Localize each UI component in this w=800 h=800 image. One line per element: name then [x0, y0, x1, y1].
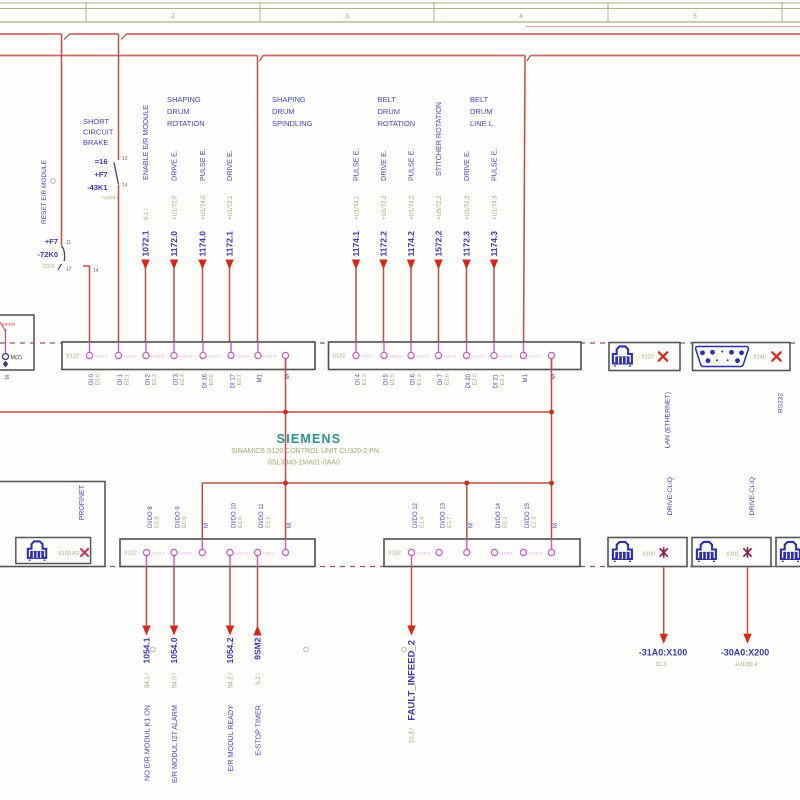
svg-text:1172.2: 1172.2	[378, 231, 388, 257]
wire: M bus L2 (second horizontal)	[0, 56, 800, 62]
contact Q1 -72K0 (breaker contact 11/12)	[58, 240, 72, 273]
svg-text:+U5/72.2: +U5/72.2	[437, 195, 443, 220]
svg-text:E0.0: E0.0	[96, 374, 102, 385]
svg-text:DI/DO 11: DI/DO 11	[259, 503, 265, 528]
svg-text:E2.3: E2.3	[532, 517, 538, 528]
wire: branch from L1 at x=61.5	[61, 34, 63, 246]
svg-text:+1/23.2: +1/23.2	[389, 353, 403, 358]
svg-text:DI 1: DI 1	[118, 373, 124, 385]
wire: outgoing signal 1054.1	[142, 567, 152, 782]
svg-text:+U1/72.0: +U1/72.0	[172, 195, 178, 220]
header row band	[0, 2, 800, 22]
svg-text:M: M	[5, 375, 11, 380]
svg-text:SPINDLING: SPINDLING	[272, 119, 313, 128]
header column numbers	[171, 13, 697, 20]
svg-text:BELT: BELT	[378, 95, 397, 104]
terminal strip X122 (top)	[62, 342, 315, 370]
svg-text:X132: X132	[388, 551, 401, 557]
svg-text:+1/23.4: +1/23.4	[443, 353, 457, 358]
svg-text:BELT: BELT	[470, 95, 489, 104]
svg-text:1174.0: 1174.0	[197, 231, 207, 257]
port X102 (DRIVE-CLiQ, partial)	[776, 538, 800, 567]
svg-text:+1/23.7: +1/23.7	[528, 353, 542, 358]
svg-text:+1/22.4: +1/22.4	[123, 353, 137, 358]
svg-text:3: 3	[345, 13, 349, 20]
svg-text:DI/DO 12: DI/DO 12	[413, 502, 419, 528]
svg-text:1172.0: 1172.0	[169, 231, 179, 257]
svg-text:+U1/74.2: +U1/74.2	[409, 195, 415, 220]
svg-text:-43K1: -43K1	[87, 183, 107, 192]
svg-text:+U1/72.1: +U1/72.1	[228, 195, 234, 220]
svg-text:+1/10.3: +1/10.3	[416, 550, 430, 555]
svg-text:DI 0: DI 0	[89, 373, 95, 385]
svg-text:SINAMICS S120 CONTROL UNIT CU3: SINAMICS S120 CONTROL UNIT CU320-2 PN	[231, 448, 379, 455]
svg-text:14: 14	[122, 183, 128, 189]
wire: incoming signal 1172.3	[461, 150, 471, 352]
svg-text:DI/DO 13: DI/DO 13	[441, 502, 447, 528]
wire: incoming signal 1174.0	[197, 149, 207, 353]
svg-text:-72K0: -72K0	[38, 250, 58, 259]
svg-text:54.1 /: 54.1 /	[145, 673, 151, 688]
junction dots M bus	[283, 410, 554, 486]
svg-text:E1.6: E1.6	[445, 374, 451, 385]
svg-text:LAN (ETHERNET): LAN (ETHERNET)	[665, 392, 672, 448]
wire: X132:8 M down to bottom strip	[551, 359, 553, 550]
svg-text:SHAPING: SHAPING	[272, 95, 306, 104]
svg-text:+U1/74.1: +U1/74.1	[354, 195, 360, 220]
terminal stubs bottom strips	[147, 539, 552, 567]
svg-text:E0.1: E0.1	[125, 374, 131, 385]
wire: M bus horizontal y=412	[0, 411, 552, 413]
svg-text:M: M	[204, 523, 210, 528]
svg-text:X101: X101	[726, 552, 739, 558]
svg-text:+1/22.6: +1/22.6	[179, 353, 193, 358]
svg-text:11: 11	[66, 240, 71, 246]
dashed outline CU320 top edge (left part)	[0, 342, 800, 344]
svg-text:DRIVE-CLiQ: DRIVE-CLiQ	[749, 477, 756, 516]
svg-text:DRIVE E.: DRIVE E.	[462, 150, 471, 181]
svg-text:X132: X132	[333, 354, 346, 360]
svg-text:DI 5: DI 5	[384, 373, 390, 385]
svg-text:PULSE E.: PULSE E.	[407, 149, 416, 181]
svg-text:E2.0: E2.0	[473, 374, 479, 385]
svg-text:DI 20: DI 20	[466, 373, 472, 388]
svg-text:ENABLE E/R MODULE: ENABLE E/R MODULE	[141, 105, 150, 180]
wire: contact output to X122:1	[83, 266, 99, 352]
svg-text:PROFINET: PROFINET	[79, 484, 86, 520]
wire: 24V supply bus L1 (top horizontal)	[0, 34, 800, 40]
terminal box M(Z)	[0, 315, 34, 370]
label: device tag +F7 -72K0	[38, 237, 58, 270]
terminal stubs strip X122/X132 top	[90, 342, 552, 370]
svg-text:+1/10.4: +1/10.4	[499, 550, 513, 555]
svg-text:MPER: MPER	[2, 322, 16, 327]
svg-text:DI 3: DI 3	[174, 373, 180, 385]
wire: branch from L1 at x=118.5	[118, 34, 120, 160]
port X127 (LAN)	[609, 343, 680, 371]
interrupt circle o4	[402, 647, 407, 652]
svg-text:M1: M1	[523, 373, 529, 382]
svg-text:M(Z): M(Z)	[11, 355, 23, 361]
svg-text:DI 6: DI 6	[411, 373, 417, 385]
svg-text:DRUM: DRUM	[167, 107, 190, 116]
svg-text:2: 2	[171, 13, 175, 20]
svg-text:E0.3: E0.3	[155, 517, 161, 528]
svg-text:+U1/74.3: +U1/74.3	[492, 195, 498, 220]
svg-text:6SL3040-1MA01-0AA0: 6SL3040-1MA01-0AA0	[268, 460, 340, 467]
svg-text:+1/22.9: +1/22.9	[263, 353, 277, 358]
svg-text:E1.4: E1.4	[420, 517, 426, 528]
svg-text:9.1 /: 9.1 /	[144, 208, 150, 220]
svg-text:RESET E/R MODULE: RESET E/R MODULE	[41, 160, 48, 224]
svg-text:E1.5: E1.5	[390, 374, 396, 385]
svg-text:31.3: 31.3	[656, 662, 667, 668]
svg-text:DI 17: DI 17	[231, 373, 237, 388]
svg-text:BRAKE: BRAKE	[83, 138, 108, 147]
wire: contact to X122:2	[118, 185, 120, 352]
interrupt circle o2	[151, 647, 156, 652]
svg-text:RS232: RS232	[778, 393, 785, 413]
svg-text:DRIVE E.: DRIVE E.	[225, 150, 234, 181]
svg-text:1174.2: 1174.2	[406, 231, 416, 257]
svg-text:E2.2: E2.2	[503, 517, 509, 528]
svg-text:14: 14	[93, 268, 99, 274]
svg-text:DRIVE E.: DRIVE E.	[170, 150, 179, 181]
svg-text:DRUM: DRUM	[378, 107, 401, 116]
svg-text:+1/9.2: +1/9.2	[262, 550, 274, 555]
svg-text:LINE L.: LINE L.	[470, 119, 495, 128]
wire: light pink bus (partial, right)	[526, 26, 800, 28]
svg-text:E0.6: E0.6	[209, 374, 215, 385]
svg-text:SHORT: SHORT	[83, 117, 110, 126]
svg-text:DI 7: DI 7	[438, 373, 444, 385]
wire: outgoing signal 1054.0	[169, 567, 179, 784]
svg-text:13: 13	[122, 156, 128, 162]
wire: M drop to X132 bottom M1	[466, 483, 468, 550]
svg-text:SIEMENS: SIEMENS	[277, 432, 342, 446]
svg-text:M: M	[287, 523, 293, 528]
wire: incoming signal 1174.2	[406, 149, 416, 353]
svg-text:+U1/72.3: +U1/72.3	[465, 195, 471, 220]
wire: X100 to -31A0:X100	[639, 567, 688, 669]
wire: incoming signal 1572.2	[433, 102, 443, 352]
svg-text:X122: X122	[66, 354, 79, 360]
svg-text:+1/23.3: +1/23.3	[416, 353, 430, 358]
svg-text:5: 5	[693, 13, 697, 20]
page frame top border	[0, 2, 800, 4]
wire: incoming signal 1072.1	[140, 105, 150, 353]
wire: incoming signal 1174.3	[489, 149, 499, 353]
svg-text:M: M	[468, 523, 474, 528]
terminal strip X132 (bottom)	[384, 539, 580, 567]
dashed outline CU320 bottom edge	[0, 566, 800, 568]
svg-text:ROTATION: ROTATION	[167, 119, 205, 128]
svg-text:1172.1: 1172.1	[224, 231, 234, 257]
pin labels X122 bottom	[148, 502, 293, 528]
svg-text:+1/10.5: +1/10.5	[528, 550, 542, 555]
svg-text:1174.1: 1174.1	[351, 231, 361, 257]
svg-text:X122: X122	[124, 551, 137, 557]
svg-text:+1/22.3: +1/22.3	[94, 353, 108, 358]
svg-text:+U1/53.1: +U1/53.1	[101, 195, 120, 200]
svg-text:+1/54.2: +1/54.2	[235, 550, 249, 555]
wire: X122:8 M down to bottom strip	[285, 359, 287, 550]
interrupt circle o1	[51, 179, 56, 184]
svg-text:DI 16: DI 16	[203, 373, 209, 388]
svg-text:E0.4: E0.4	[180, 374, 186, 385]
svg-text:+F7: +F7	[94, 170, 107, 179]
wire: tap L2 to X122:7	[257, 56, 259, 353]
svg-text:+1/54.0: +1/54.0	[179, 550, 193, 555]
svg-text:X127: X127	[641, 355, 654, 361]
svg-text:E0.7: E0.7	[237, 374, 243, 385]
svg-text:+U1/72.2: +U1/72.2	[382, 195, 388, 220]
svg-text:1174.3: 1174.3	[489, 231, 499, 257]
label: group SHAPING DRUM SPINDLING	[272, 95, 313, 128]
port X140 (RS232 DB9)	[693, 343, 791, 371]
wire: M bus horizontal y=483	[202, 483, 551, 550]
pin labels X132 bottom	[413, 502, 559, 528]
svg-text:/72.0: /72.0	[43, 264, 54, 270]
svg-text:E1.0: E1.0	[238, 517, 244, 528]
port X101 (DRIVE-CLiQ)	[692, 538, 771, 567]
svg-text:DI/DO 15: DI/DO 15	[525, 502, 531, 528]
svg-text:+1/23.6: +1/23.6	[499, 353, 513, 358]
wire: tap L2 to X132:7	[524, 56, 526, 63]
svg-text:DI/DO 8: DI/DO 8	[148, 506, 154, 528]
pin labels X132 top	[356, 373, 558, 388]
label: group BELT DRUM LINE L.	[470, 95, 495, 128]
PROFINET interface box	[0, 482, 105, 567]
svg-text:E/R MODUL READY: E/R MODUL READY	[226, 705, 235, 772]
svg-text:E1.4: E1.4	[417, 374, 423, 385]
wire: X101 to -30A0:X200	[721, 567, 770, 669]
svg-text:DI/DO 14: DI/DO 14	[496, 502, 502, 528]
svg-text:M1: M1	[258, 373, 264, 382]
svg-text:1072.1: 1072.1	[140, 230, 150, 256]
svg-text:SHAPING: SHAPING	[167, 95, 201, 104]
svg-text:-30A0:X200: -30A0:X200	[721, 648, 770, 658]
svg-text:DRUM: DRUM	[470, 107, 493, 116]
svg-text:-31A0:X100: -31A0:X100	[639, 648, 688, 658]
svg-text:M: M	[553, 523, 559, 528]
svg-text:E1.7: E1.7	[447, 517, 453, 528]
svg-text:1054.2: 1054.2	[225, 637, 235, 663]
wire: outgoing signal 1054.2	[225, 567, 235, 772]
label: SHORT CIRCUIT BRAKE	[83, 117, 114, 147]
svg-text:1172.3: 1172.3	[461, 231, 471, 257]
svg-text:CIRCUIT: CIRCUIT	[83, 128, 114, 137]
svg-text:+U1/30.4: +U1/30.4	[735, 662, 757, 668]
svg-text:E0.5: E0.5	[182, 517, 188, 528]
label: group BELT DRUM ROTATION	[378, 95, 416, 128]
svg-text:=16: =16	[95, 157, 108, 166]
svg-text:54.0 /: 54.0 /	[173, 673, 179, 688]
svg-text:+1/54.1: +1/54.1	[151, 550, 165, 555]
svg-text:PULSE E.: PULSE E.	[490, 149, 499, 181]
svg-text:DI 4: DI 4	[356, 373, 362, 385]
svg-text:PULSE E.: PULSE E.	[198, 149, 207, 181]
interrupt circle o3	[304, 647, 309, 652]
svg-text:54.2 /: 54.2 /	[229, 673, 235, 688]
terminal strip X132 (top)	[329, 342, 582, 370]
svg-text:10.3 /: 10.3 /	[410, 728, 416, 743]
svg-text:DI 21: DI 21	[494, 373, 500, 388]
contact K1 -43K1 (NO contact 13/14)	[114, 156, 128, 189]
svg-text:DI 2: DI 2	[146, 373, 152, 385]
pin labels X122 top	[89, 373, 291, 388]
svg-text:1054.1: 1054.1	[142, 637, 152, 663]
svg-text:+1/22.8: +1/22.8	[236, 353, 250, 358]
svg-text:E1.3: E1.3	[362, 374, 368, 385]
svg-text:E0.3: E0.3	[152, 374, 158, 385]
svg-text:1054.0: 1054.0	[169, 637, 179, 663]
svg-text:+F7: +F7	[45, 237, 58, 246]
svg-text:+1/22.7: +1/22.7	[208, 353, 222, 358]
svg-text:+1/22.5: +1/22.5	[151, 353, 165, 358]
wire: outgoing signal FAULT_INFEED_2	[407, 567, 418, 744]
svg-text:12: 12	[66, 267, 72, 273]
svg-text:PULSE E.: PULSE E.	[352, 149, 361, 181]
svg-text:DI/DO 9: DI/DO 9	[176, 506, 182, 528]
label: device tag =16 +F7 -43K1	[87, 157, 120, 200]
svg-text:DRIVE E.: DRIVE E.	[379, 150, 388, 181]
svg-text:E1.1: E1.1	[266, 517, 272, 528]
svg-text:E-STOP TIMER: E-STOP TIMER	[253, 705, 262, 756]
svg-text:ROTATION: ROTATION	[378, 119, 416, 128]
svg-text:STITCHER ROTATION: STITCHER ROTATION	[434, 102, 443, 176]
svg-text:DI/DO 10: DI/DO 10	[232, 502, 238, 528]
svg-text:+1/23.5: +1/23.5	[471, 353, 485, 358]
svg-text:+U1/74.0: +U1/74.0	[201, 195, 207, 220]
wire: incoming signal 1172.2	[378, 150, 388, 352]
svg-text:1572.2: 1572.2	[433, 230, 443, 256]
wire: incoming signal 1172.0	[169, 150, 179, 352]
svg-text:X100: X100	[642, 552, 655, 558]
svg-text:DRIVE-CLiQ: DRIVE-CLiQ	[667, 477, 674, 516]
wire: incoming signal 1172.1	[224, 150, 234, 352]
svg-text:X150 P2: X150 P2	[58, 551, 79, 557]
terminal strip X122 (bottom)	[120, 539, 315, 567]
label: group SHAPING DRUM ROTATION	[167, 95, 205, 128]
svg-text:9.2 /: 9.2 /	[256, 673, 262, 685]
svg-text:+1/23.1: +1/23.1	[361, 353, 375, 358]
svg-text:NO E/R MODUL K1 ON: NO E/R MODUL K1 ON	[142, 705, 151, 781]
port X100 (DRIVE-CLiQ)	[608, 538, 687, 567]
svg-text:FAULT_INFEED_2: FAULT_INFEED_2	[407, 640, 418, 721]
svg-text:X140: X140	[753, 355, 766, 361]
svg-text:E/R MODUL I27 ALARM: E/R MODUL I27 ALARM	[170, 705, 179, 783]
svg-text:DRUM: DRUM	[272, 107, 295, 116]
svg-text:4: 4	[519, 13, 523, 20]
svg-text:E2.1: E2.1	[500, 374, 506, 385]
wire: incoming signal 1174.1	[351, 149, 361, 353]
wire: outgoing signal 9SM2	[253, 567, 263, 756]
svg-text:9SM2: 9SM2	[253, 637, 263, 659]
